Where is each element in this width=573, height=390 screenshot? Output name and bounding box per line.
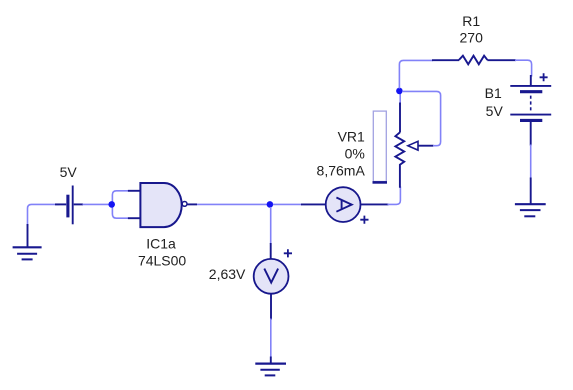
svg-text:74LS00: 74LS00 bbox=[138, 252, 186, 268]
wire: input loop tying NAND inputs together bbox=[112, 191, 128, 218]
wire: voltmeter to ground bbox=[270, 319, 272, 358]
wire: node to ammeter bbox=[273, 203, 302, 205]
wire: left ground corner to battery bbox=[28, 204, 60, 226]
wire: battery to NAND input node bbox=[83, 203, 110, 205]
wire: wiper loop up to node bbox=[403, 91, 441, 145]
svg-text:R1: R1 bbox=[462, 13, 480, 29]
svg-text:B1: B1 bbox=[485, 85, 502, 101]
NAND gate IC1a bbox=[128, 183, 197, 227]
ground (left) bbox=[13, 224, 42, 259]
voltmeter bbox=[254, 243, 289, 320]
svg-text:270: 270 bbox=[460, 30, 484, 46]
ground (voltmeter) bbox=[255, 357, 286, 376]
svg-text:IC1a: IC1a bbox=[146, 235, 176, 251]
wire: ammeter up to potentiometer bbox=[388, 187, 401, 205]
node: NAND input junction bbox=[108, 201, 115, 208]
ground (B1) bbox=[515, 178, 546, 217]
svg-text:0%: 0% bbox=[345, 145, 365, 161]
battery 5V (left) bbox=[55, 186, 83, 225]
label + (voltmeter positive) bbox=[284, 249, 292, 257]
resistor R1 bbox=[432, 56, 516, 65]
svg-text:VR1: VR1 bbox=[338, 128, 365, 144]
wire: potentiometer top pin to node bbox=[399, 94, 401, 105]
wire: NAND output to measurement node bbox=[197, 203, 267, 205]
wire: node down to voltmeter bbox=[270, 207, 272, 244]
potentiometer VR1 bbox=[373, 103, 434, 188]
wire: node up and over to R1 bbox=[399, 60, 433, 88]
svg-text:5V: 5V bbox=[486, 103, 504, 119]
label + (ammeter positive) bbox=[360, 216, 368, 224]
node: output junction bbox=[267, 201, 274, 208]
node: potentiometer top junction bbox=[396, 88, 403, 95]
svg-text:8,76mA: 8,76mA bbox=[317, 162, 366, 178]
svg-text:2,63V: 2,63V bbox=[209, 266, 246, 282]
ammeter bbox=[301, 187, 389, 222]
wire: R1 over to battery B1 bbox=[515, 60, 532, 76]
wire: B1 down to ground bbox=[530, 145, 532, 179]
label + (B1 positive) bbox=[540, 73, 548, 81]
battery B1 bbox=[510, 75, 551, 146]
svg-text:5V: 5V bbox=[60, 164, 78, 180]
